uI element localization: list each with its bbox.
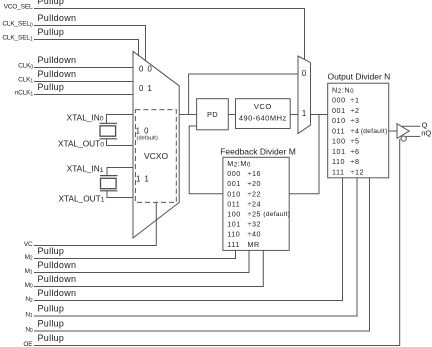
wire M1 to divider M [34, 250, 249, 272]
svg-text:÷4: ÷4 [351, 126, 360, 135]
svg-text:XTAL_IN0: XTAL_IN0 [67, 112, 104, 122]
wire divider N output to buffer [389, 130, 397, 132]
pin M0 [25, 274, 77, 289]
wire VCO to mux U2 input 1 [290, 114, 298, 116]
wire feedback tap to divider M [289, 115, 319, 194]
svg-text:0 1: 0 1 [139, 84, 153, 93]
crystal X2 bottom plate [100, 190, 118, 192]
wire XTAL_OUT0 stub [107, 139, 134, 146]
wire nCLK1 to mux U1 input 01 [34, 94, 133, 96]
crystal X1 body [100, 126, 116, 136]
crystal X2 body [101, 178, 117, 188]
svg-text:÷24: ÷24 [248, 199, 262, 208]
divider N output divider box [328, 83, 389, 178]
oscillator VCO block [236, 99, 291, 129]
svg-text:Output Divider N: Output Divider N [327, 72, 390, 82]
svg-text:Pullup: Pullup [38, 304, 65, 314]
svg-text:÷32: ÷32 [248, 220, 262, 229]
svg-text:(default): (default) [263, 211, 290, 218]
svg-text:Pullup: Pullup [38, 0, 65, 6]
svg-text:011: 011 [227, 199, 240, 208]
wire CLK_SEL0 to mux U1 select [34, 26, 146, 62]
svg-text:N2: N2 [25, 296, 33, 304]
svg-text:N2:N0: N2:N0 [332, 85, 354, 95]
svg-text:÷25: ÷25 [248, 210, 262, 219]
svg-text:100: 100 [332, 137, 346, 146]
pin CLK_SEL1 [2, 27, 64, 42]
pin M1 [25, 260, 77, 275]
wire divider M output to PD feedback input [189, 126, 223, 194]
pin VCO_SEL [4, 0, 65, 11]
svg-text:011: 011 [332, 126, 345, 135]
divider M feedback divider box [223, 157, 289, 250]
svg-text:XTAL_OUT1: XTAL_OUT1 [58, 193, 104, 203]
svg-text:CLK1: CLK1 [18, 77, 33, 85]
svg-text:010: 010 [332, 116, 346, 125]
svg-text:Pulldown: Pulldown [38, 13, 77, 23]
svg-text:Pullup: Pullup [38, 246, 65, 256]
svg-text:CLK0: CLK0 [18, 63, 33, 71]
wire N0 to divider N [34, 178, 370, 331]
pin OE [23, 333, 64, 347]
svg-text:010: 010 [227, 189, 241, 198]
svg-text:(default): (default) [361, 128, 388, 135]
svg-text:101: 101 [227, 220, 241, 229]
wire N2 to divider N [34, 178, 343, 301]
svg-text:nCLK1: nCLK1 [15, 90, 34, 98]
svg-text:0: 0 [302, 69, 307, 78]
crystal X2 top plate [100, 175, 118, 177]
wire M2 to divider M [34, 250, 236, 258]
svg-text:÷20: ÷20 [248, 179, 262, 188]
svg-text:Pulldown: Pulldown [38, 69, 77, 79]
svg-text:CLK_SEL1: CLK_SEL1 [2, 35, 33, 43]
pin N1 [25, 304, 64, 319]
svg-text:Pullup: Pullup [38, 333, 65, 343]
svg-text:XTAL_OUT0: XTAL_OUT0 [58, 138, 104, 148]
wire CLK0 to mux U1 input 00 [34, 67, 133, 69]
svg-text:N0: N0 [25, 326, 33, 334]
svg-text:000: 000 [227, 169, 241, 178]
mux U2 VCO bypass selector [298, 56, 311, 134]
svg-text:÷8: ÷8 [351, 157, 360, 166]
wire CLK1 to mux U1 input 01 [34, 81, 133, 83]
wire Q output [402, 125, 421, 127]
svg-text:Pulldown: Pulldown [38, 274, 77, 284]
crystal X1 top plate [100, 122, 118, 124]
svg-text:101: 101 [332, 147, 346, 156]
svg-text:÷2: ÷2 [351, 106, 360, 115]
wire XTAL_IN1 stub [107, 168, 133, 176]
wire XTAL_IN0 stub [107, 115, 134, 124]
wire VCO_SEL to mux U2 select [34, 9, 305, 60]
svg-text:VC: VC [24, 241, 33, 248]
svg-text:111: 111 [332, 168, 345, 177]
svg-text:÷6: ÷6 [351, 147, 360, 156]
wire nQ output [406, 135, 421, 137]
svg-text:÷16: ÷16 [248, 169, 262, 178]
svg-text:N1: N1 [25, 311, 33, 319]
svg-text:1: 1 [302, 109, 307, 118]
svg-text:001: 001 [227, 179, 241, 188]
svg-text:÷40: ÷40 [248, 230, 262, 239]
inverter bubble on nQ output [401, 136, 406, 141]
wire N1 to divider N [34, 178, 357, 316]
pin CLK1 [18, 69, 76, 84]
wire PD to VCO [228, 114, 235, 116]
svg-text:VCXO: VCXO [144, 151, 168, 161]
svg-text:000: 000 [332, 96, 346, 105]
svg-text:PD: PD [207, 110, 218, 119]
svg-text:M2:M0: M2:M0 [227, 159, 251, 169]
vcxo VCXO dashed block [135, 110, 176, 203]
svg-text:Pulldown: Pulldown [38, 55, 77, 65]
mux U1 input clock selector [133, 51, 179, 238]
pin CLK_SEL0 [2, 13, 76, 28]
svg-text:XTAL_IN1: XTAL_IN1 [67, 164, 104, 174]
svg-text:÷5: ÷5 [351, 137, 360, 146]
svg-text:490-640MHz: 490-640MHz [239, 113, 287, 122]
svg-text:÷1: ÷1 [351, 96, 360, 105]
pin N2 [25, 288, 76, 304]
svg-text:VCO_SEL: VCO_SEL [4, 4, 33, 11]
svg-text:(default): (default) [137, 136, 158, 142]
svg-text:110: 110 [332, 157, 345, 166]
wire junction to mux U2 input 0 [189, 74, 298, 115]
svg-text:001: 001 [332, 106, 346, 115]
svg-text:M2: M2 [25, 254, 33, 262]
wire VC to VCXO [34, 202, 156, 245]
svg-text:nQ: nQ [421, 128, 431, 137]
buffer output driver triangle [397, 124, 409, 139]
svg-text:Pullup: Pullup [38, 27, 65, 37]
svg-text:1 0: 1 0 [136, 126, 150, 135]
svg-text:100: 100 [227, 210, 241, 219]
pin CLK0 [18, 55, 76, 70]
svg-text:M0: M0 [25, 282, 33, 290]
wire mux U1 output to PD [179, 114, 196, 116]
svg-text:110: 110 [227, 230, 240, 239]
wire mux U2 output to divider N [311, 114, 328, 116]
svg-text:0 0: 0 0 [139, 65, 153, 74]
svg-text:OE: OE [23, 341, 33, 347]
svg-text:÷12: ÷12 [351, 168, 365, 177]
wire CLK_SEL1 to mux U1 select [34, 40, 139, 57]
svg-text:111: 111 [227, 240, 240, 249]
svg-text:÷22: ÷22 [248, 189, 262, 198]
svg-text:MR: MR [248, 240, 260, 249]
op-amp PD phase detector block [197, 99, 229, 130]
svg-text:÷3: ÷3 [351, 116, 360, 125]
wire XTAL_OUT1 stub [107, 191, 133, 198]
wire OE to output buffer enable [34, 139, 400, 346]
svg-text:Pulldown: Pulldown [38, 288, 77, 298]
svg-text:Feedback Divider M: Feedback Divider M [220, 146, 296, 156]
svg-text:Pullup: Pullup [38, 319, 65, 329]
wire M0 to divider M [34, 250, 263, 286]
svg-text:1 1: 1 1 [136, 174, 150, 183]
svg-text:M1: M1 [25, 268, 33, 276]
crystal X1 bottom plate [100, 138, 118, 140]
svg-text:Pulldown: Pulldown [38, 260, 77, 270]
svg-text:VCO: VCO [254, 102, 272, 111]
svg-text:Pullup: Pullup [38, 82, 65, 92]
svg-text:CLK_SEL0: CLK_SEL0 [2, 21, 33, 29]
pin nCLK1 [15, 82, 65, 97]
pin N0 [25, 319, 64, 334]
pin M2 [25, 246, 65, 261]
